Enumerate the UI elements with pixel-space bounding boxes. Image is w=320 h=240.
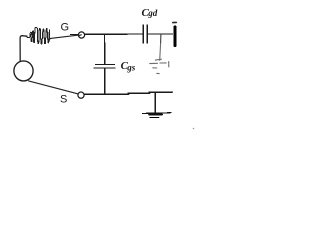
bottom rail wire bbox=[84, 92, 172, 94]
wire: Cgd right plate to drain bar bbox=[148, 33, 172, 35]
drain terminal bar bbox=[174, 27, 177, 46]
stray dot bbox=[193, 128, 195, 130]
svg-text:G: G bbox=[61, 22, 70, 34]
sketched ground (hand-drawn pencil) bbox=[150, 59, 167, 73]
resistor R (hand-drawn scribble) bbox=[27, 27, 51, 43]
capacitor Cgs bbox=[94, 64, 115, 68]
wire: drain node down to sketched ground (pencil) bbox=[160, 34, 162, 43]
wire: source bottom to S terminal (hand-drawn slant) bbox=[29, 81, 79, 94]
gate lead stub bbox=[70, 33, 78, 35]
voltage source VS (hand-drawn circle) bbox=[14, 61, 33, 81]
pen mark above drain bar bbox=[173, 21, 177, 23]
pen dash right of sketched ground bbox=[168, 62, 170, 67]
ground lead bbox=[154, 92, 156, 113]
wire: pen overshoot into G terminal bbox=[79, 34, 81, 37]
wire: Cgs bottom plate to bottom rail bbox=[104, 69, 106, 95]
wire: junction down to Cgs top plate bbox=[104, 34, 106, 64]
wire: source top riser to resistor bbox=[20, 36, 27, 62]
svg-text:gd: gd bbox=[147, 8, 158, 18]
wire: gate node to Cgd left plate bbox=[85, 33, 143, 35]
svg-text:S: S bbox=[60, 93, 67, 105]
terminal S (open circle) bbox=[78, 92, 84, 98]
ground symbol bbox=[142, 113, 171, 118]
svg-text:gs: gs bbox=[126, 62, 136, 72]
terminal G (open circle) bbox=[78, 32, 84, 38]
capacitor Cgd bbox=[143, 25, 147, 43]
wire: resistor to gate terminal (hand-drawn slant) bbox=[50, 35, 79, 39]
